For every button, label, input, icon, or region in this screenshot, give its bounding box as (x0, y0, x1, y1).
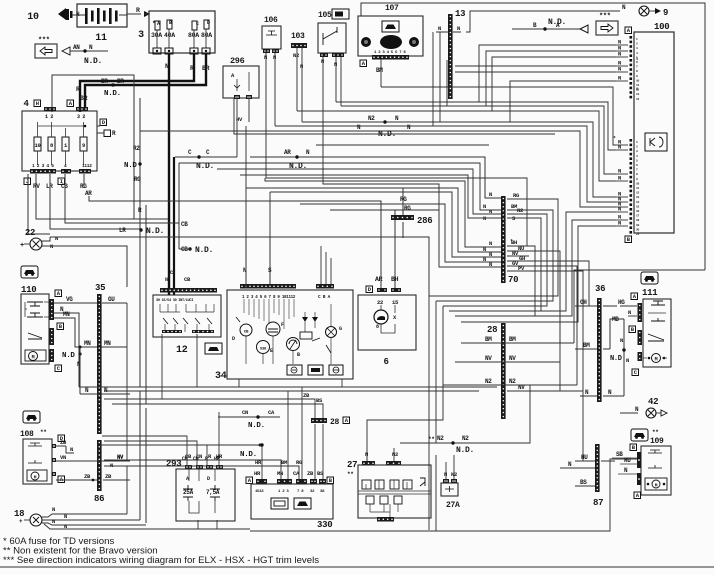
wire y134 (234, 98, 555, 134)
svg-text:3 2: 3 2 (77, 114, 85, 120)
svg-text:1: 1 (636, 58, 638, 62)
window lift switch 111 (629, 288, 671, 376)
svg-text:*: * (613, 136, 616, 142)
right border turn (574, 270, 705, 343)
70 right labels (507, 192, 529, 272)
svg-text:ZB: ZB (84, 473, 91, 480)
loop row 316 (455, 214, 628, 317)
svg-text:*: * (510, 239, 513, 245)
wire GV down (529, 266, 577, 385)
wire y169 (217, 169, 501, 214)
svg-text:BM: BM (509, 336, 516, 343)
svg-text:F: F (281, 322, 284, 328)
control unit 4 (22, 99, 97, 190)
svg-text:N2: N2 (517, 207, 523, 214)
svg-text:BM: BM (376, 67, 383, 74)
svg-text:MB: MB (612, 316, 619, 323)
svg-text:VG: VG (66, 296, 73, 303)
wire GU down (126, 303, 128, 514)
wire y175 (240, 175, 501, 218)
svg-text:NV: NV (117, 453, 124, 460)
svg-text:BR: BR (101, 78, 108, 85)
band wires to 100 lower pins (140, 87, 628, 208)
svg-text:BR: BR (80, 95, 88, 102)
labels above 330 (240, 444, 324, 478)
loop row 311 (449, 206, 628, 312)
gauge S38 in 34 (257, 341, 274, 365)
svg-text:19: 19 (636, 224, 640, 227)
svg-text:N.D: N.D (124, 162, 137, 170)
wire AR-N middle (250, 149, 501, 198)
svg-text:N.D.: N.D. (195, 246, 213, 255)
wire BH into 6 (394, 210, 396, 288)
svg-text:14: 14 (636, 98, 640, 101)
svg-text:RG: RG (404, 205, 411, 212)
36 wire N bottom (580, 389, 624, 396)
svg-text:N: N (264, 54, 267, 61)
wire C-C (175, 98, 237, 171)
svg-text:N.D.: N.D. (240, 451, 257, 459)
svg-text:7,5A: 7,5A (206, 489, 220, 496)
outer wire rectangle around unit 4 (52, 75, 134, 219)
wire MN (54, 311, 127, 349)
wire R2 vertical (124, 98, 146, 523)
svg-text:A: A (186, 476, 189, 482)
svg-text:6: 6 (383, 357, 388, 367)
svg-text:+: + (20, 242, 24, 250)
svg-text:10: 10 (636, 182, 640, 185)
vertical 13b (439, 32, 441, 122)
wire CB (65, 174, 188, 228)
svg-text:HU: HU (624, 457, 631, 464)
junction N2 wire (357, 115, 411, 139)
svg-text:MN: MN (277, 470, 283, 477)
svg-text:N: N (334, 61, 337, 68)
svg-text:R: R (76, 86, 80, 93)
svg-text:N.D.: N.D. (146, 227, 164, 236)
footnote 3 (3, 555, 319, 566)
wire y145 (316, 144, 489, 146)
loop row 301 (436, 210, 553, 443)
thick wire N from fuse box (165, 54, 169, 295)
control unit 100 (625, 22, 674, 243)
svg-text:HR: HR (254, 470, 261, 477)
svg-text:N2: N2 (462, 435, 469, 442)
svg-text:RG: RG (134, 176, 141, 183)
indicator symbol *** (35, 37, 57, 58)
svg-text:87: 87 (593, 498, 603, 508)
svg-text:296: 296 (230, 56, 245, 66)
svg-text:27A: 27A (446, 501, 460, 510)
svg-text:B: B (297, 352, 300, 358)
87 wires (560, 454, 615, 486)
28 labels (480, 336, 525, 391)
connector strip 35 (95, 283, 105, 434)
top frame wire (361, 3, 705, 270)
svg-text:N: N (618, 220, 621, 227)
car icon 108 (23, 411, 40, 423)
svg-text:N: N (55, 235, 58, 242)
svg-text:8: 8 (636, 88, 638, 92)
gauge F in 34 (266, 322, 284, 364)
svg-text:***: *** (599, 13, 611, 21)
svg-text:22: 22 (25, 228, 35, 238)
svg-text:35: 35 (95, 283, 105, 293)
svg-text:N: N (64, 523, 67, 530)
svg-text:**: ** (40, 429, 47, 436)
svg-text:RG: RG (296, 459, 303, 466)
svg-text:N: N (618, 206, 621, 213)
wire NV to 28 (529, 256, 560, 391)
svg-text:HR: HR (214, 456, 220, 462)
footnote 2 (3, 546, 158, 557)
svg-text:28: 28 (487, 325, 497, 335)
svg-text:286: 286 (417, 216, 432, 226)
svg-text:1513: 1513 (255, 490, 264, 494)
connector strip 13 (436, 9, 465, 99)
horn button 22 (20, 228, 58, 250)
unit 106 (262, 16, 281, 61)
svg-text:25A: 25A (183, 489, 194, 496)
svg-text:N: N (628, 309, 631, 316)
wire N2 across 28 (443, 384, 577, 386)
svg-text:N: N (52, 506, 55, 513)
svg-text:86: 86 (94, 494, 104, 504)
unit 105 (318, 9, 349, 68)
svg-text:MN: MN (63, 311, 70, 318)
wire 22 to right (42, 237, 127, 287)
svg-text:BR: BR (202, 65, 210, 72)
svg-text:18: 18 (636, 219, 640, 222)
109 wires (612, 451, 637, 474)
loop row 296 (429, 199, 558, 530)
svg-text:N: N (438, 25, 441, 32)
wires into 293 (102, 412, 220, 465)
svg-text:111: 111 (642, 288, 658, 298)
svg-text:N: N (273, 54, 276, 61)
fuse 293 outputs down (198, 520, 217, 529)
svg-text:30 15/54 30 INT/LUCI: 30 15/54 30 INT/LUCI (156, 298, 193, 303)
svg-text:22: 22 (377, 299, 383, 306)
svg-text:15: 15 (636, 205, 640, 208)
svg-text:N2: N2 (437, 435, 444, 442)
wire y163 (179, 163, 501, 210)
unit 109 (630, 429, 671, 499)
svg-text:N: N (165, 277, 168, 283)
svg-text:14: 14 (636, 201, 640, 204)
wire 22 long (50, 237, 429, 296)
svg-text:GH: GH (580, 299, 587, 306)
svg-text:G: G (339, 326, 342, 332)
svg-text:12: 12 (636, 192, 640, 195)
svg-text:N.D.: N.D. (378, 130, 396, 139)
svg-text:BS: BS (580, 479, 587, 486)
wire N stub 111 (628, 309, 637, 316)
36 wire MB (610, 316, 629, 396)
wire ZB to 28A (104, 392, 315, 479)
drop 105 pin2 (335, 57, 337, 102)
svg-text:CA: CA (268, 409, 275, 416)
svg-text:10: 10 (27, 12, 39, 23)
svg-text:**: ** (652, 429, 659, 436)
wires into 27 (367, 448, 394, 461)
footnote 1 (3, 536, 114, 547)
svg-text:N: N (457, 25, 460, 32)
fuse unit 293 (166, 453, 235, 521)
indicator *** top right (512, 13, 618, 35)
connector 286 (391, 188, 432, 238)
svg-text:AN: AN (73, 44, 80, 51)
connector 27A (441, 455, 460, 510)
wire from 4 down-left (28, 174, 50, 234)
svg-text:**: ** (428, 436, 435, 443)
svg-text:CB: CB (182, 456, 188, 462)
wire x436 down (435, 455, 437, 531)
svg-text:N: N (64, 513, 67, 520)
svg-text:N: N (300, 63, 303, 70)
wire BM across 28 (461, 342, 574, 344)
36 wires GH (575, 299, 625, 306)
wire 296 right pin down (248, 98, 250, 122)
svg-text:8: 8 (376, 324, 379, 330)
long wire y391 (104, 390, 479, 392)
ground 42 (620, 397, 667, 418)
svg-text:16: 16 (636, 210, 640, 213)
svg-text:ZB: ZB (105, 473, 112, 480)
ground 18 (14, 509, 42, 526)
svg-text:293: 293 (166, 459, 181, 469)
svg-text:11: 11 (95, 33, 107, 44)
svg-text:27: 27 (347, 460, 357, 470)
svg-text:N2: N2 (509, 378, 516, 385)
svg-text:AR: AR (284, 149, 291, 156)
svg-text:15: 15 (392, 299, 399, 306)
wire RG-AR (84, 174, 381, 289)
svg-text:N2: N2 (485, 378, 492, 385)
svg-text:N: N (321, 58, 324, 65)
connector strip 87 (593, 444, 603, 508)
wire 35 cross N (80, 393, 130, 395)
clock unit 107 (358, 4, 423, 74)
svg-text:7 8: 7 8 (297, 490, 304, 494)
car icon 109 (631, 429, 648, 441)
svg-text:N: N (365, 451, 368, 458)
svg-text:1 2 3 4 5: 1 2 3 4 5 (32, 163, 54, 169)
wire CB vertical (179, 163, 213, 255)
long wire y530 (250, 459, 637, 531)
svg-text:106: 106 (264, 16, 278, 25)
relay unit 27 (347, 451, 431, 522)
svg-text:80A: 80A (201, 32, 212, 39)
svg-text:BM: BM (281, 459, 288, 466)
svg-text:BR: BR (117, 78, 124, 85)
svg-text:28: 28 (330, 418, 340, 427)
svg-text:36: 36 (595, 284, 605, 294)
svg-text:N: N (70, 446, 73, 453)
wires to 100 upper pins (455, 39, 628, 123)
drop 106 pin2 (274, 53, 276, 126)
svg-text:N: N (626, 357, 629, 364)
svg-text:20: 20 (636, 228, 640, 231)
svg-text:ZB: ZB (303, 392, 310, 399)
svg-text:N2: N2 (368, 115, 375, 122)
svg-text:N: N (483, 203, 486, 210)
svg-text:9: 9 (663, 8, 668, 18)
fuse box 34 (215, 284, 353, 382)
svg-text:108: 108 (20, 430, 34, 439)
svg-text:VN: VN (60, 454, 66, 461)
vertical 13c (446, 60, 448, 106)
wire 13 area (466, 11, 560, 32)
svg-text:CN: CN (193, 456, 199, 462)
svg-text:1112: 1112 (82, 163, 92, 169)
svg-text:N: N (489, 191, 492, 198)
battery 11 (72, 4, 127, 44)
drop 106 pin1 (266, 53, 527, 246)
svg-text:11: 11 (636, 187, 640, 190)
svg-text:109: 109 (650, 437, 664, 446)
svg-text:N: N (165, 63, 169, 70)
verticals 12-34 to bottom (162, 334, 342, 399)
svg-text:HG: HG (618, 299, 625, 306)
wire PV down (529, 271, 583, 391)
svg-text:N.D.: N.D. (104, 90, 121, 98)
svg-text:H: H (36, 100, 39, 107)
svg-text:1 2: 1 2 (45, 114, 53, 120)
wire y181 (265, 178, 501, 247)
svg-text:D: D (232, 336, 235, 342)
svg-text:N.D.: N.D. (84, 57, 102, 66)
svg-text:M: M (655, 357, 658, 363)
svg-text:BM: BM (583, 342, 590, 349)
vertical 13a (432, 32, 434, 126)
window lift switch 110 (21, 285, 64, 372)
svg-text:17: 17 (636, 215, 640, 218)
svg-text:4: 4 (23, 99, 29, 109)
svg-text:N: N (620, 337, 623, 344)
gauge E in 34 (287, 338, 301, 365)
svg-text:N: N (52, 518, 55, 525)
svg-text:1 2 3: 1 2 3 (278, 490, 289, 494)
svg-text:**: ** (347, 471, 354, 478)
svg-text:N: N (618, 75, 621, 82)
svg-text:*** See direction indicators w: *** See direction indicators wiring diag… (3, 555, 319, 566)
connector strip 86 (94, 440, 104, 504)
svg-text:E: E (270, 348, 273, 354)
wire AN-N (62, 44, 108, 66)
svg-text:70: 70 (508, 275, 518, 285)
svg-text:R2: R2 (133, 145, 140, 152)
svg-text:CB: CB (184, 276, 191, 283)
svg-text:N: N (489, 240, 492, 247)
svg-text:42: 42 (648, 397, 658, 407)
connector 296 (223, 56, 259, 99)
wires into 34 top (243, 237, 272, 284)
svg-text:SB: SB (616, 451, 623, 458)
svg-text:PV: PV (518, 265, 525, 272)
svg-text:N: N (110, 462, 113, 469)
loop row 306 (367, 214, 547, 461)
connector 103 (291, 32, 307, 70)
svg-text:3: 3 (138, 30, 144, 41)
loop row 322 (461, 220, 628, 323)
svg-text:13: 13 (636, 196, 640, 199)
svg-text:M: M (32, 355, 35, 361)
svg-text:9: 9 (82, 142, 85, 149)
wire VG-GU (54, 296, 127, 303)
wire N to ground 9 (560, 4, 668, 18)
wire N from 110 (54, 306, 79, 387)
svg-text:BM: BM (485, 336, 492, 343)
svg-text:MN: MN (104, 340, 111, 347)
svg-text:21: 21 (636, 233, 640, 236)
wire N 86 right (104, 466, 299, 479)
wire N bottom 110 (80, 387, 127, 394)
thick wire R from fuse box (76, 54, 194, 112)
svg-text:NU: NU (518, 245, 524, 252)
wire BM from 107 (381, 59, 616, 142)
svg-text:GU: GU (108, 296, 115, 303)
connector strip 28 (487, 323, 506, 419)
thick wire C (165, 157, 191, 295)
diodes in 34 (300, 312, 320, 341)
svg-text:N2: N2 (392, 451, 398, 458)
svg-text:RG: RG (400, 196, 407, 203)
svg-text:MN: MN (84, 340, 91, 347)
svg-text:C B A: C B A (318, 294, 331, 300)
svg-text:N: N (618, 175, 621, 182)
switch unit 6 (358, 276, 416, 367)
thick wire BR from fuse box (80, 54, 210, 109)
svg-text:N: N (618, 144, 621, 151)
wire NV across 28 (455, 361, 560, 363)
svg-text:N: N (483, 215, 486, 222)
svg-text:1 2 3 4 5 6 7 8: 1 2 3 4 5 6 7 8 (374, 51, 406, 55)
unit 108 (20, 429, 65, 484)
long wire y387 (79, 386, 497, 388)
svg-text:N: N (444, 471, 447, 478)
wire N2 down right (480, 385, 530, 443)
car icon 111 (641, 272, 658, 284)
svg-text:107: 107 (385, 4, 399, 13)
instrument module 12 (153, 288, 222, 356)
svg-text:CN: CN (242, 409, 248, 416)
svg-text:GH: GH (519, 255, 525, 262)
svg-text:11: 11 (636, 84, 640, 87)
svg-text:R: R (136, 7, 140, 14)
wire NV-HU right (507, 391, 595, 461)
svg-text:BS: BS (316, 397, 323, 404)
wire y192 (270, 192, 501, 284)
svg-text:103: 103 (291, 32, 305, 41)
connector 28A (311, 417, 350, 427)
36 wires BM (575, 342, 610, 349)
svg-text:ZB: ZB (60, 439, 67, 446)
svg-text:CB: CB (181, 221, 188, 228)
svg-text:10: 10 (34, 142, 40, 149)
svg-text:NV: NV (485, 355, 492, 362)
connector strip 70 (501, 196, 518, 285)
svg-text:RV: RV (33, 183, 40, 190)
svg-text:LR: LR (119, 227, 126, 234)
svg-text:N.D: N.D (610, 355, 622, 363)
wire y210b (330, 210, 501, 267)
fuse box 3 (138, 11, 215, 54)
svg-text:RG: RG (513, 192, 520, 199)
drop 103 pins (297, 48, 302, 122)
svg-text:ZB: ZB (307, 470, 314, 477)
svg-text:NV: NV (509, 355, 516, 362)
